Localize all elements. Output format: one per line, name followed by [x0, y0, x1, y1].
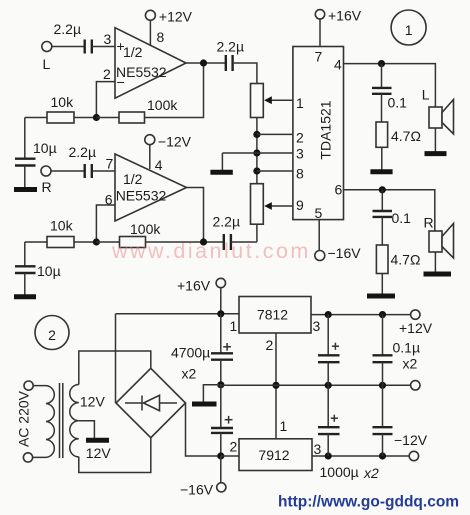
svg-text:8: 8 — [296, 166, 304, 182]
transformer T1 primary terminal top — [24, 381, 33, 390]
svg-text:0.1: 0.1 — [392, 210, 412, 226]
svg-text:2.2µ: 2.2µ — [213, 214, 241, 230]
wire RP2 bottom to C6 — [256, 224, 258, 242]
ground (speaker L) — [425, 151, 447, 156]
op-amp U2 1/2 NE5532 — [115, 154, 187, 221]
potentiometer RP2 — [251, 184, 293, 225]
wire RP1 bottom to node chain — [256, 118, 258, 135]
svg-text:10k: 10k — [50, 218, 74, 234]
wire R6 to ground — [381, 274, 383, 295]
svg-text:100k: 100k — [147, 97, 178, 113]
svg-text:4: 4 — [334, 57, 342, 73]
power amp U3 TDA1521 — [293, 47, 344, 222]
regulator U5 7912 — [230, 418, 322, 471]
capacitor C11 1000u upper — [318, 315, 340, 386]
svg-text:12V: 12V — [86, 445, 112, 461]
svg-text:x2: x2 — [182, 366, 197, 382]
capacitor C2 10u (L) — [15, 140, 57, 166]
capacitor C8 0.1 (R zobel) — [373, 210, 412, 226]
node B junction (U1 output) — [200, 59, 207, 66]
svg-text:−12V: −12V — [158, 134, 192, 150]
ground (R zobel) — [367, 294, 395, 299]
circled label 1 — [391, 10, 426, 45]
wire C9 to node H — [220, 360, 222, 385]
label 1000u x2 — [320, 464, 380, 481]
svg-text:0.1: 0.1 — [388, 95, 408, 111]
wire R2 to output node B — [145, 63, 204, 118]
wire R1 to node A — [74, 117, 96, 119]
svg-text:1: 1 — [296, 95, 304, 111]
svg-text:−16V: −16V — [328, 245, 362, 261]
wire C7 to R5 — [381, 94, 383, 122]
op-amp U1 1/2 NE5532 — [115, 28, 186, 99]
svg-text:R: R — [424, 215, 434, 231]
resistor R6 4.7ohm (R zobel) — [376, 245, 420, 274]
capacitor C4 2.2u (R input coupling) — [69, 144, 97, 178]
svg-text:4.7Ω: 4.7Ω — [391, 128, 421, 144]
svg-text:4: 4 — [155, 157, 163, 173]
0V output terminal — [411, 381, 420, 390]
svg-text:100k: 100k — [130, 221, 161, 237]
capacitor C7 0.1 (L zobel) — [372, 88, 407, 111]
node I junction — [217, 452, 224, 459]
+16V supply terminal U3 pin7 — [315, 8, 361, 47]
node pin8 junction — [253, 167, 260, 174]
svg-text:TDA1521: TDA1521 — [318, 100, 334, 159]
speaker R — [424, 215, 454, 273]
svg-text:2: 2 — [48, 327, 56, 343]
regulator U4 7812 — [230, 297, 321, 354]
+12V output bus — [311, 314, 411, 316]
svg-text:+16V: +16V — [177, 278, 211, 294]
potentiometer RP1 — [251, 84, 293, 118]
wire C10 to node I — [220, 433, 222, 456]
node F junction — [379, 186, 386, 193]
svg-text:+12V: +12V — [399, 320, 433, 336]
transformer core — [60, 383, 63, 458]
svg-text:2.2µ: 2.2µ — [217, 39, 245, 55]
+16V bus wire — [116, 313, 240, 315]
svg-text:9: 9 — [296, 197, 304, 213]
ground (PSU mid) — [192, 385, 221, 404]
svg-text:7912: 7912 — [258, 447, 289, 463]
wire bridge - vertex to -16V rail — [186, 403, 222, 456]
svg-text:3: 3 — [296, 146, 304, 162]
svg-text:1/2: 1/2 — [123, 44, 143, 60]
svg-text:2: 2 — [266, 337, 274, 353]
svg-text:x2: x2 — [363, 465, 379, 481]
+12V supply terminal U1 pin 8 — [145, 9, 192, 46]
node G junction — [217, 310, 224, 317]
wire down to C5 — [24, 242, 26, 266]
svg-text:12V: 12V — [80, 394, 106, 410]
wire U1 pin2 to node A — [96, 82, 115, 118]
svg-text:0.1µ: 0.1µ — [393, 340, 421, 356]
svg-text:R: R — [42, 179, 52, 195]
resistor R5 4.7ohm (L zobel) — [376, 122, 421, 147]
svg-text:2.2µ: 2.2µ — [69, 144, 97, 160]
+12V output terminal — [399, 310, 433, 336]
wire node F down — [381, 190, 383, 211]
svg-text:1: 1 — [405, 22, 413, 38]
ground (C5) — [14, 294, 36, 299]
node M junction — [325, 382, 332, 389]
ground (speaker R) — [424, 272, 452, 277]
wire R input to C4 — [51, 170, 84, 172]
ground (L zobel) — [370, 169, 392, 174]
input terminal R — [41, 166, 52, 195]
wire to TDA pin2 — [257, 133, 293, 135]
wire C1 to U1 pin3 — [92, 46, 115, 48]
wire U5 pin3 bus — [312, 455, 409, 457]
node E junction — [378, 60, 385, 67]
svg-text:+16V: +16V — [328, 8, 362, 24]
svg-text:6: 6 — [335, 182, 343, 198]
wire R4 to node D — [146, 241, 224, 243]
-12V supply terminal U2 pin 4 — [145, 134, 192, 174]
wire bus down to bridge + vertex — [115, 314, 117, 403]
resistor R4 100k (R feedback) — [120, 221, 162, 248]
-12V output terminal — [394, 432, 428, 461]
wire R5 to ground — [381, 147, 383, 170]
wire C2 to ground — [24, 166, 26, 188]
svg-text:2: 2 — [296, 130, 304, 146]
node J junction — [272, 382, 279, 389]
wire U3 pin6 output — [344, 190, 435, 231]
svg-text:−: − — [117, 74, 125, 90]
svg-text:−12V: −12V — [394, 432, 428, 448]
wire R3 to node C — [74, 241, 96, 243]
capacitor C5 10u (R) — [15, 263, 61, 279]
wire L input to C1 — [52, 46, 84, 48]
svg-text:3: 3 — [313, 318, 321, 334]
wire secondary top to bridge — [79, 351, 151, 385]
input terminal L — [42, 42, 52, 73]
svg-text:L: L — [422, 87, 430, 103]
bridge rectifier D1 — [116, 368, 186, 437]
-16V supply terminal U3 pin5 — [315, 220, 361, 261]
svg-text:L: L — [43, 56, 51, 72]
svg-text:AC 220V: AC 220V — [16, 390, 32, 447]
node H junction (0V) — [217, 381, 224, 388]
-12V output bus — [221, 455, 239, 457]
node L junction — [379, 311, 386, 318]
capacitor C1 2.2u (L input coupling) — [54, 21, 92, 54]
capacitor C9 4700u upper — [171, 343, 233, 382]
wire node A to R2 — [96, 117, 119, 119]
node pin2 junction — [253, 131, 260, 138]
svg-text:+12V: +12V — [159, 9, 193, 25]
speaker L — [422, 87, 454, 152]
svg-text:8: 8 — [157, 29, 165, 45]
wire U2 pin6 to node C — [96, 205, 115, 242]
resistor R1 10k (L) — [47, 94, 74, 123]
resistor R2 100k (L feedback) — [119, 97, 178, 123]
node D junction (U2 output) — [200, 238, 207, 245]
wire C5 to ground — [24, 273, 26, 295]
transformer T1 secondary winding — [70, 385, 79, 457]
wire C3 to RP1 — [233, 63, 257, 84]
svg-text:2: 2 — [230, 439, 238, 455]
node P junction — [379, 452, 386, 459]
svg-text:5: 5 — [315, 205, 323, 221]
svg-text:www.dianlut.com: www.dianlut.com — [111, 239, 311, 263]
svg-text:3: 3 — [104, 31, 112, 47]
svg-text:1/2: 1/2 — [123, 171, 143, 187]
+16V terminal (PSU) — [177, 278, 226, 314]
center tap ground — [79, 421, 109, 441]
-16V terminal (PSU) — [180, 456, 226, 498]
ground (C2) — [14, 187, 37, 192]
wire to TDA pin8 — [257, 170, 293, 172]
svg-text:1000µ: 1000µ — [320, 464, 359, 480]
capacitor C10 4700u lower — [211, 385, 233, 433]
wire down to C2 — [24, 118, 26, 159]
svg-text:3: 3 — [314, 441, 322, 457]
svg-text:7812: 7812 — [257, 307, 288, 323]
node N junction — [379, 382, 386, 389]
wire left of R1 — [25, 117, 47, 119]
wire ground to TDA pin3 — [222, 152, 293, 154]
capacitor C6 2.2u (lower coupling) — [213, 214, 241, 251]
svg-text:NE5532: NE5532 — [116, 188, 167, 204]
wire U1 output — [186, 62, 226, 64]
capacitor C14 0.1u lower — [373, 385, 393, 456]
node O junction — [325, 452, 332, 459]
wire node C to R4 — [96, 241, 119, 243]
svg-text:7: 7 — [106, 156, 114, 172]
node C junction — [93, 238, 100, 245]
transformer T1 primary winding — [33, 386, 55, 458]
svg-text:10k: 10k — [51, 94, 75, 110]
wire C6 to RP2 bottom — [231, 241, 257, 243]
wire C4 to U2 pin7 — [92, 170, 115, 172]
wire C8 to R6 — [381, 217, 383, 245]
transformer T1 primary terminal bottom — [23, 453, 32, 462]
0V mid bus — [221, 384, 411, 386]
wire U3 pin4 output — [344, 64, 436, 107]
capacitor C13 0.1u upper — [373, 315, 421, 386]
svg-text:4.7Ω: 4.7Ω — [391, 252, 421, 268]
node pin3 junction — [253, 149, 260, 156]
circled label 2 — [35, 316, 69, 350]
wire U4 pin2 to U5 pin1 — [275, 333, 277, 439]
wire secondary bottom to bridge — [79, 438, 151, 473]
svg-text:1: 1 — [280, 418, 288, 434]
wire U2 output — [186, 188, 204, 243]
resistor R3 10k (R) — [47, 218, 74, 248]
wire node E down — [381, 64, 383, 88]
svg-text:4700µ: 4700µ — [171, 345, 210, 361]
svg-text:x2: x2 — [403, 356, 418, 372]
svg-text:10µ: 10µ — [37, 263, 61, 279]
wire left of R3 — [25, 241, 47, 243]
svg-text:http://www.go-gddq.com: http://www.go-gddq.com — [278, 494, 459, 511]
capacitor C12 1000u lower — [318, 385, 340, 456]
wire +16 rail down — [220, 314, 222, 353]
svg-text:2: 2 — [103, 66, 111, 82]
svg-text:10µ: 10µ — [33, 140, 57, 156]
svg-text:−16V: −16V — [180, 482, 214, 498]
node K junction — [325, 311, 332, 318]
ground (pin3 bias) — [210, 153, 232, 172]
node A junction — [93, 114, 100, 121]
mid rail with junctions — [256, 134, 258, 183]
svg-text:2.2µ: 2.2µ — [54, 21, 82, 37]
svg-text:1: 1 — [230, 318, 238, 334]
capacitor C3 2.2u (upper coupling) — [217, 39, 245, 72]
svg-text:7: 7 — [315, 49, 323, 65]
